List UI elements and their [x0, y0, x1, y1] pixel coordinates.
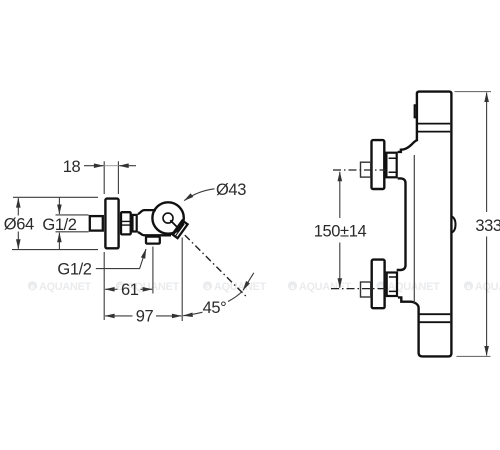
left view: nut facet lines: [122, 221, 131, 225]
dim O64: down arrow: [17, 232, 19, 249]
svg-text:333: 333: [475, 217, 500, 235]
watermark 3: [203, 281, 267, 293]
right view: top joint lines: [418, 124, 451, 132]
svg-text:45°: 45°: [203, 299, 227, 317]
dim G1/2 upper: down arrow: [58, 197, 60, 214]
right view: bottom pipe stub: [361, 282, 371, 297]
watermark 1: [28, 281, 92, 293]
dim 18: extension lines: [104, 161, 118, 194]
watermark 4: [288, 281, 352, 293]
right view: bottom union nut: [387, 273, 397, 297]
svg-text:61: 61: [121, 281, 139, 299]
dim 45: vertical extension line: [181, 238, 183, 322]
left view: knob hub inner circle: [163, 213, 173, 223]
svg-text:97: 97: [136, 308, 154, 326]
left view: valve barrel top edge: [138, 210, 156, 214]
left view: handle knurl hatches: [174, 223, 184, 236]
dim G1/2 upper: extension lines: [56, 215, 89, 232]
right view: top union nut: [386, 153, 396, 178]
watermark row: [28, 281, 500, 293]
right view: body left edge between connections: [398, 178, 406, 271]
left view: washer ring: [133, 215, 137, 232]
right view: bottom centerline: [331, 288, 386, 290]
right view: top centerline: [333, 169, 386, 171]
dim O64: extension lines: [12, 197, 98, 249]
right view: top escutcheon: [372, 140, 385, 189]
dim 333: down arrow: [486, 237, 488, 356]
dim 61/97: long left extension line: [103, 252, 105, 320]
right view: top pipe stub: [361, 162, 371, 177]
right view: inner edge line: [413, 155, 415, 303]
right view: bottom joint lines: [420, 314, 451, 322]
left view: 45-degree dashed axis: [185, 235, 246, 296]
right view: check button bump: [451, 216, 455, 232]
dim 18: line between extensions: [104, 165, 118, 167]
svg-text:AQUANET: AQUANET: [39, 281, 92, 293]
right view: body outline upper: [398, 92, 452, 357]
right view: top nut facets: [389, 158, 397, 172]
svg-text:AQUANET: AQUANET: [475, 281, 500, 293]
dim 45: arrow onto dashed axis: [243, 273, 254, 291]
right view: bottom escutcheon: [372, 260, 385, 309]
dim 61: left arrow: [105, 288, 117, 290]
dim 61: right extension line: [152, 247, 154, 294]
dim 45: arc left part with arrow: [183, 312, 202, 316]
svg-text:Ø43: Ø43: [216, 181, 246, 199]
dim O43: leader arrow: [184, 189, 214, 201]
dim 97: left arrow: [105, 315, 132, 317]
dim 333: bottom extension line: [457, 355, 491, 357]
dim 45: arc right part: [228, 291, 242, 301]
left view: union nut: [121, 212, 131, 234]
dim O64: up arrow: [17, 198, 19, 215]
left view: handle block: [172, 221, 187, 239]
watermark 6: [464, 281, 500, 293]
svg-text:G1/2: G1/2: [42, 216, 76, 234]
svg-text:G1/2: G1/2: [57, 260, 91, 278]
left view: wall escutcheon Ø64: [105, 199, 118, 249]
dim 61: right arrow: [141, 288, 153, 290]
dim G1/2 lower: leader arrow: [96, 249, 146, 269]
dim 150: up arrow: [339, 172, 341, 218]
svg-text:18: 18: [63, 158, 81, 176]
left view: outlet spout G1/2: [146, 237, 160, 244]
right view: clip notch on left edge: [415, 105, 417, 117]
right view: bottom nut facets: [389, 277, 397, 291]
dim 333: up arrow: [486, 93, 488, 213]
svg-text:150±14: 150±14: [314, 222, 367, 240]
dim 150: down arrow: [339, 243, 341, 288]
watermark 5: [376, 281, 440, 293]
left view: inlet pipe G1/2: [90, 216, 103, 231]
left view: valve barrel bottom edge: [138, 232, 171, 235]
svg-text:AQUANET: AQUANET: [299, 281, 352, 293]
dim G1/2 upper: up arrow: [58, 233, 60, 250]
dim 333: top extension line: [455, 91, 492, 93]
dim 18: right arrow: [119, 165, 136, 167]
svg-text:Ø64: Ø64: [4, 215, 34, 233]
dim 97: right arrow: [156, 315, 181, 317]
watermark 2: [116, 281, 180, 293]
dim 18: left arrow: [84, 165, 103, 167]
left view: control knob circle Ø43: [152, 202, 183, 233]
left view: knob index line: [170, 220, 179, 229]
